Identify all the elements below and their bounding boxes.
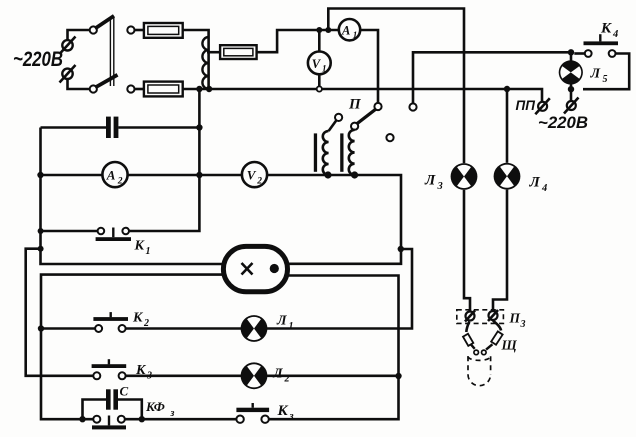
svg-text:2: 2 (143, 318, 149, 329)
svg-text:Щ: Щ (501, 338, 518, 353)
svg-text:К: К (600, 21, 612, 37)
svg-text:2: 2 (256, 176, 262, 186)
svg-text:V: V (247, 168, 257, 183)
svg-text:Л: Л (276, 314, 287, 329)
svg-text:К: К (135, 363, 147, 378)
svg-text:С: С (120, 384, 129, 399)
svg-text:КФ: КФ (145, 399, 165, 414)
svg-text:V: V (312, 57, 322, 71)
svg-text:~220В: ~220В (538, 113, 588, 132)
svg-text:4: 4 (612, 29, 618, 40)
svg-text:Л: Л (424, 173, 436, 189)
svg-text:2: 2 (117, 176, 123, 186)
svg-text:1: 1 (322, 63, 327, 73)
svg-text:з: з (170, 408, 175, 419)
svg-text:П: П (509, 311, 521, 326)
svg-text:Л: Л (272, 367, 283, 382)
svg-text:К: К (134, 239, 146, 254)
svg-text:А: А (341, 24, 350, 38)
svg-text:Л: Л (529, 175, 541, 191)
svg-text:Л: Л (590, 67, 601, 82)
svg-text:ПП: ПП (516, 98, 536, 113)
svg-text:5: 5 (603, 74, 608, 85)
svg-text:~220В: ~220В (13, 48, 63, 71)
svg-text:3: 3 (437, 181, 443, 192)
svg-text:К: К (277, 403, 289, 419)
svg-text:3: 3 (146, 371, 152, 382)
svg-text:П: П (348, 97, 362, 113)
svg-text:А: А (106, 168, 116, 183)
svg-text:2: 2 (284, 374, 290, 385)
svg-text:з: з (289, 411, 294, 422)
svg-text:3: 3 (520, 319, 526, 330)
svg-text:К: К (132, 311, 144, 326)
svg-text:1: 1 (289, 321, 294, 332)
svg-text:1: 1 (353, 30, 358, 40)
svg-text:1: 1 (146, 246, 151, 257)
svg-text:4: 4 (541, 183, 547, 194)
